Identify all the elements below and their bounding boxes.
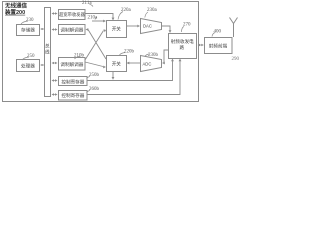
svg-text:控制寄存器: 控制寄存器	[61, 78, 84, 85]
svg-text:230b: 230b	[148, 53, 159, 58]
svg-text:260b: 260b	[89, 87, 100, 92]
svg-text:250: 250	[27, 54, 35, 59]
svg-text:230a: 230a	[147, 8, 158, 13]
svg-text:装置200: 装置200	[5, 8, 25, 16]
svg-text:DAC: DAC	[143, 24, 152, 29]
svg-text:路: 路	[180, 44, 185, 51]
svg-text:ADC: ADC	[143, 62, 152, 67]
svg-text:210b: 210b	[74, 54, 85, 59]
svg-text:无线通信: 无线通信	[4, 1, 28, 9]
svg-text:调制解调器: 调制解调器	[60, 26, 83, 33]
svg-text:211a: 211a	[82, 1, 92, 6]
svg-text:250b: 250b	[89, 73, 100, 78]
svg-text:210a: 210a	[88, 16, 99, 21]
svg-text:220a: 220a	[121, 8, 132, 13]
svg-text:400: 400	[214, 30, 222, 35]
svg-text:220b: 220b	[124, 50, 135, 55]
svg-text:开关: 开关	[112, 26, 122, 33]
svg-text:存储器: 存储器	[21, 27, 35, 34]
svg-text:开关: 开关	[112, 60, 122, 67]
svg-text:调制解调器: 调制解调器	[60, 61, 83, 68]
svg-text:控制寄存器: 控制寄存器	[61, 92, 84, 99]
svg-text:总: 总	[45, 43, 50, 49]
svg-text:超宽带收发器: 超宽带收发器	[59, 11, 85, 18]
svg-text:线: 线	[45, 49, 50, 55]
svg-text:290: 290	[232, 57, 240, 62]
svg-text:射频收发电: 射频收发电	[171, 38, 194, 45]
svg-text:射频前端: 射频前端	[209, 42, 228, 49]
svg-text:处理器: 处理器	[21, 62, 35, 69]
svg-text:270: 270	[183, 23, 191, 28]
svg-text:230: 230	[26, 18, 34, 23]
